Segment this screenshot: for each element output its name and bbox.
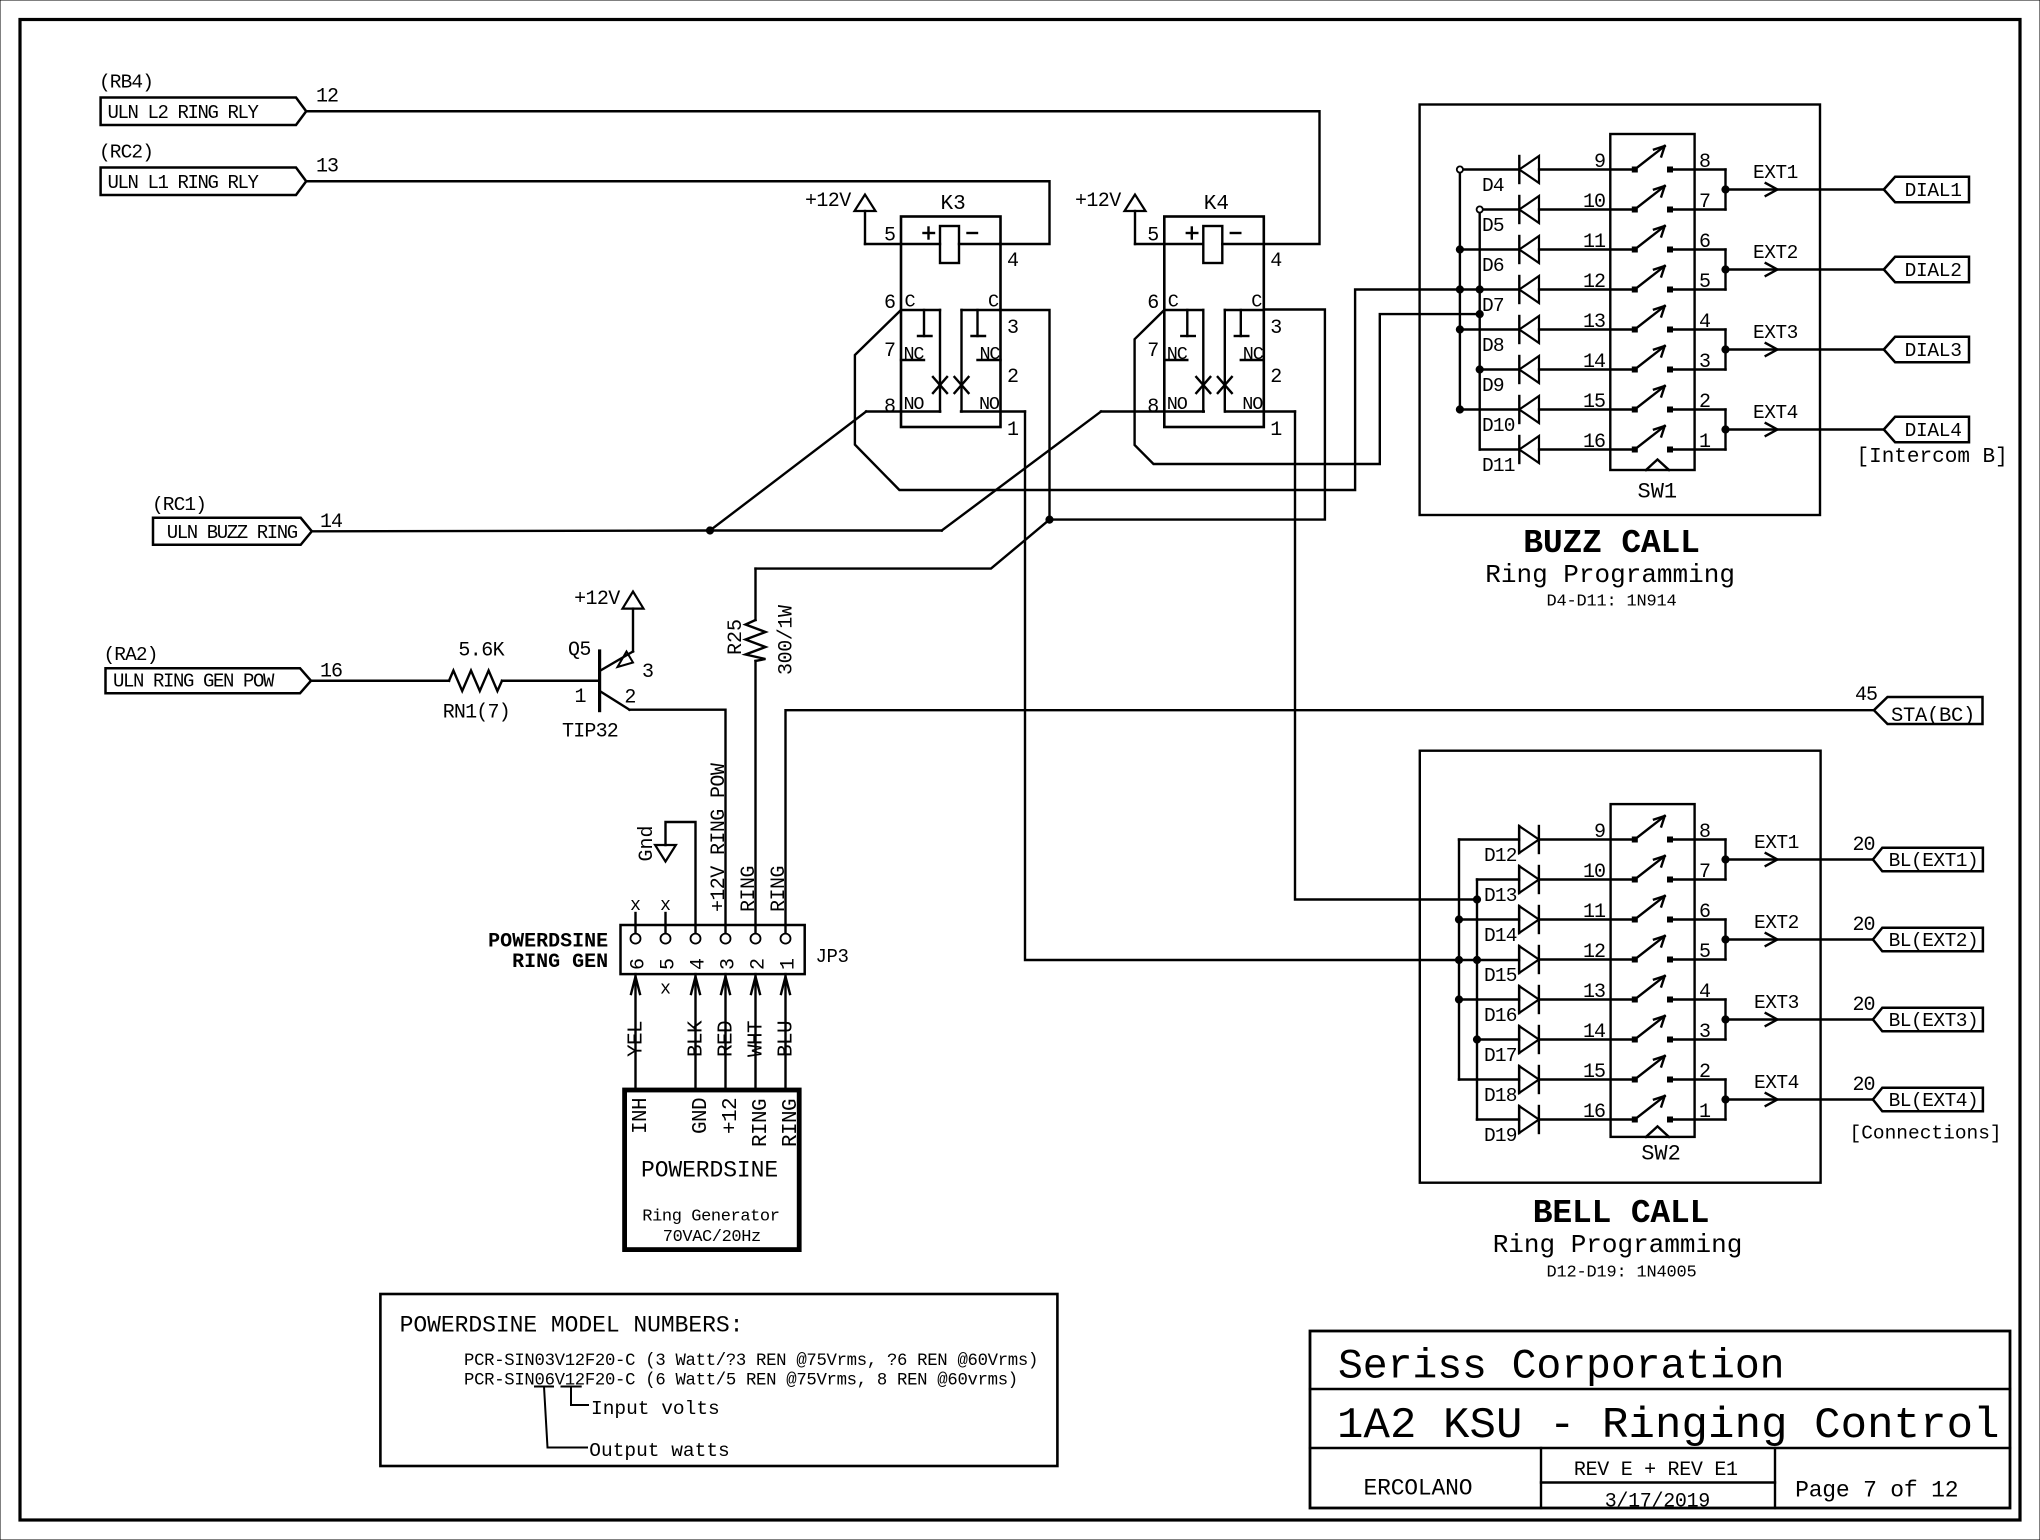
K4 coil - sign: [1231, 232, 1241, 234]
svg-text:12: 12: [316, 86, 338, 109]
diode D14: [1459, 918, 1519, 920]
svg-text:2: 2: [1007, 366, 1019, 389]
bus1 junction: [1455, 996, 1462, 1003]
connector BL(EXT4): [1873, 1088, 1983, 1112]
wire node to R25 top: [756, 520, 1050, 569]
svg-text:EXT3: EXT3: [1754, 992, 1799, 1014]
connector ULN BUZZ RING: [153, 518, 312, 545]
arrow: [1766, 183, 1778, 196]
BUZZ bus2: [1478, 210, 1480, 450]
arrow: [1766, 1013, 1778, 1026]
K4 pin5 wire: [1135, 243, 1203, 245]
svg-text:BL(EXT1): BL(EXT1): [1889, 850, 1979, 872]
title divider v1: [1540, 1448, 1542, 1508]
svg-text:ULN BUZZ RING: ULN BUZZ RING: [167, 522, 298, 544]
svg-text:4: 4: [688, 958, 711, 970]
svg-text:3/17/2019: 3/17/2019: [1605, 1491, 1710, 1514]
svg-text:C: C: [905, 292, 916, 313]
K3 left contact (C/NC/NO): [901, 309, 940, 311]
svg-text:7: 7: [1699, 861, 1711, 884]
svg-text:1: 1: [1699, 431, 1711, 454]
svg-text:EXT2: EXT2: [1753, 242, 1798, 264]
relay K4 body: [1164, 217, 1264, 428]
svg-text:D14: D14: [1484, 925, 1517, 947]
svg-text:9: 9: [1594, 151, 1605, 174]
wire EXT3 to BL(EXT3): [1726, 1018, 1873, 1020]
svg-text:8: 8: [1699, 151, 1711, 174]
connector ULN L1 RING RLY: [101, 168, 307, 196]
connector ULN RING GEN POW: [106, 668, 312, 693]
svg-text:6: 6: [1699, 901, 1711, 924]
switch pole row 7: [1632, 407, 1637, 412]
diode D6: [1460, 248, 1519, 250]
svg-text:NC: NC: [1243, 344, 1264, 365]
diode D19: [1477, 1118, 1519, 1120]
svg-text:x: x: [660, 896, 671, 916]
connector BL(EXT1): [1873, 848, 1983, 872]
switch pole row 1: [1632, 167, 1637, 172]
svg-text:POWERDSINE MODEL NUMBERS:: POWERDSINE MODEL NUMBERS:: [400, 1313, 744, 1339]
svg-text:Output watts: Output watts: [589, 1440, 729, 1462]
svg-text:Page 7 of 12: Page 7 of 12: [1795, 1478, 1958, 1504]
svg-text:EXT1: EXT1: [1754, 832, 1799, 854]
svg-text:2: 2: [1699, 1061, 1711, 1084]
svg-text:1A2 KSU - Ringing Control: 1A2 KSU - Ringing Control: [1337, 1401, 2000, 1451]
svg-text:7: 7: [1147, 340, 1159, 363]
wire K3 pin6 to BUZZ bus: [855, 290, 1519, 491]
svg-text:NC: NC: [1167, 344, 1188, 365]
bus1 open end: [1457, 166, 1463, 172]
svg-text:5: 5: [658, 958, 681, 970]
svg-text:RED: RED: [716, 1021, 739, 1057]
JP3 pin 4 circle: [691, 934, 701, 944]
svg-text:SW1: SW1: [1638, 480, 1678, 505]
svg-text:45: 45: [1855, 684, 1877, 707]
switch pole row 2: [1632, 207, 1637, 212]
switch pole row 8: [1632, 447, 1637, 452]
svg-text:RN1(7): RN1(7): [443, 702, 510, 725]
svg-text:13: 13: [316, 156, 338, 179]
arrowhead up: [691, 977, 700, 995]
svg-text:[Intercom B]: [Intercom B]: [1857, 446, 2008, 469]
bus2 junction: [1473, 1036, 1480, 1043]
svg-text:D16: D16: [1484, 1005, 1517, 1027]
title block: [1310, 1331, 2010, 1508]
svg-text:11: 11: [1583, 231, 1606, 254]
svg-text:1: 1: [1699, 1101, 1711, 1124]
wire 14 continues: [710, 529, 942, 531]
svg-text:R25: R25: [725, 619, 748, 655]
wire INH to JP3: [634, 974, 636, 1090]
K4 pin1 NO wire: [1225, 410, 1295, 412]
svg-text:BL(EXT3): BL(EXT3): [1889, 1010, 1979, 1032]
svg-text:RING: RING: [750, 1099, 773, 1147]
Q5 collector: [601, 692, 629, 710]
svg-text:Ring Programming: Ring Programming: [1493, 1230, 1743, 1260]
switch pole row 15: [1632, 1077, 1637, 1082]
wire EXT1 to BL(EXT1): [1726, 858, 1873, 860]
svg-text:10: 10: [1583, 861, 1605, 884]
arrow: [1766, 423, 1778, 436]
svg-text:BL(EXT4): BL(EXT4): [1889, 1090, 1979, 1112]
Q5 emitter arrow: [618, 652, 634, 668]
+12V supply for K4: [1134, 211, 1136, 244]
BUZZ bus1: [1459, 170, 1461, 410]
wire 12 to K4 pin4: [306, 111, 1319, 244]
bus1 junction: [1456, 286, 1463, 293]
diode D10: [1460, 408, 1519, 410]
output bracket EXT4 bell: [1724, 1080, 1726, 1120]
svg-text:12: 12: [1583, 941, 1605, 964]
svg-text:10: 10: [1583, 191, 1605, 214]
svg-text:12: 12: [1583, 271, 1605, 294]
Q5 emitter: [601, 652, 633, 671]
svg-text:C: C: [1168, 292, 1179, 313]
wire 13 to K3 pin4: [306, 181, 1049, 244]
connector DIAL2: [1884, 257, 1969, 282]
K3 right contact (C/NC/NO): [962, 309, 1001, 311]
svg-text:2: 2: [748, 958, 771, 970]
leader Output watts: [535, 1386, 553, 1388]
svg-text:D17: D17: [1484, 1045, 1517, 1067]
K3 pin1 NO wire: [961, 410, 1025, 412]
diode D9: [1480, 368, 1520, 370]
relay K3 body: [901, 217, 1001, 428]
svg-text:POWERDSINE: POWERDSINE: [641, 1158, 778, 1184]
svg-text:K3: K3: [941, 193, 966, 216]
arrow: [1766, 853, 1778, 866]
+12V supply for Q5: [623, 592, 644, 609]
svg-text:(RC1): (RC1): [152, 494, 206, 516]
wire K4 pin1 to BELL bus: [1295, 412, 1477, 900]
bus2 junction: [1476, 366, 1483, 373]
svg-text:3: 3: [1699, 1021, 1711, 1044]
svg-text:8: 8: [884, 396, 896, 419]
BELL bus2: [1476, 880, 1478, 1120]
svg-text:D9: D9: [1482, 375, 1504, 397]
svg-text:+12V: +12V: [574, 588, 620, 611]
svg-text:BUZZ CALL: BUZZ CALL: [1523, 525, 1699, 562]
svg-text:3: 3: [1007, 317, 1019, 340]
svg-text:x: x: [630, 896, 641, 916]
JP3 pin 1 circle: [781, 934, 791, 944]
svg-text:WHT: WHT: [746, 1021, 769, 1057]
JP3 pin 6 circle: [631, 934, 641, 944]
wire R25 to JP3 pin2: [754, 661, 756, 934]
svg-text:REV E + REV E1: REV E + REV E1: [1574, 1459, 1738, 1482]
arrowhead up: [781, 977, 790, 995]
K3 coil + sign: [924, 232, 935, 234]
svg-text:NC: NC: [904, 344, 925, 365]
svg-text:RING: RING: [768, 866, 791, 912]
K3 left X mark: [933, 377, 947, 393]
svg-text:1: 1: [1270, 419, 1282, 442]
wire RING to JP3: [784, 974, 786, 1090]
wire JP3 pin1 RING to STA(BC): [786, 710, 1874, 933]
svg-text:300/1W: 300/1W: [776, 605, 799, 675]
svg-text:D12: D12: [1484, 845, 1517, 867]
ground symbol at JP3 pin4: [666, 822, 696, 934]
output bracket EXT1: [1724, 170, 1726, 210]
diode D17: [1477, 1038, 1519, 1040]
wire Q5 emitter to +12V: [632, 609, 634, 652]
connector BL(EXT2): [1873, 928, 1983, 952]
svg-text:6: 6: [884, 292, 896, 315]
wire Q5 collector to JP3 pin3: [630, 710, 726, 934]
bus2 junction: [1476, 286, 1483, 293]
svg-text:3: 3: [1270, 317, 1282, 340]
svg-text:20: 20: [1852, 914, 1874, 937]
output bracket EXT1 bell: [1724, 840, 1726, 880]
svg-text:(RB4): (RB4): [99, 72, 153, 94]
arrowhead up: [751, 977, 760, 995]
svg-text:DIAL3: DIAL3: [1905, 340, 1962, 362]
svg-text:9: 9: [1594, 821, 1605, 844]
switch pole row 13: [1632, 997, 1637, 1002]
svg-text:NC: NC: [980, 344, 1001, 365]
svg-text:(RC2): (RC2): [99, 142, 153, 164]
JP3 pin 2 circle: [751, 934, 761, 944]
svg-text:13: 13: [1583, 981, 1605, 1004]
K4 right X mark: [1218, 377, 1232, 393]
svg-text:STA(BC): STA(BC): [1891, 705, 1975, 728]
svg-text:3: 3: [642, 661, 654, 684]
svg-text:DIAL4: DIAL4: [1905, 420, 1962, 442]
svg-text:5: 5: [1699, 941, 1711, 964]
svg-text:4: 4: [1007, 250, 1019, 273]
svg-text:16: 16: [1583, 431, 1605, 454]
K3 pin8 NO wire: [866, 410, 940, 412]
svg-text:(RA2): (RA2): [104, 644, 158, 666]
svg-text:Seriss Corporation: Seriss Corporation: [1338, 1344, 1784, 1391]
svg-text:15: 15: [1583, 1061, 1605, 1084]
svg-text:BLK: BLK: [686, 1020, 709, 1057]
svg-text:D12-D19: 1N4005: D12-D19: 1N4005: [1547, 1264, 1697, 1283]
connector DIAL4: [1884, 417, 1969, 442]
svg-text:K4: K4: [1204, 193, 1229, 216]
svg-text:D10: D10: [1482, 415, 1515, 437]
svg-text:Gnd: Gnd: [636, 825, 659, 861]
switch pole row 4: [1632, 287, 1637, 292]
svg-text:4: 4: [1699, 311, 1711, 334]
wire EXT1 to DIAL1: [1726, 188, 1884, 190]
arrowhead up: [631, 977, 640, 995]
svg-text:C: C: [988, 292, 999, 313]
svg-text:C: C: [1251, 292, 1262, 313]
svg-text:EXT3: EXT3: [1753, 322, 1798, 344]
svg-text:EXT2: EXT2: [1754, 912, 1799, 934]
svg-text:Q5: Q5: [568, 639, 591, 662]
junction on BELL bus2 row D15: [1473, 956, 1480, 963]
svg-text:15: 15: [1583, 391, 1605, 414]
svg-text:5.6K: 5.6K: [458, 640, 504, 663]
junction wire14/K3pin8: [706, 527, 713, 534]
bus1 junction: [1456, 246, 1463, 253]
SW2 notch: [1646, 1126, 1669, 1137]
svg-text:Ring Programming: Ring Programming: [1485, 560, 1735, 590]
svg-text:3: 3: [1699, 351, 1711, 374]
output bracket EXT3: [1724, 330, 1726, 370]
svg-text:Input volts: Input volts: [591, 1398, 720, 1420]
K4 left X mark: [1196, 377, 1210, 393]
K4 pin4 inner wire: [1222, 243, 1264, 245]
K3 coil - sign: [968, 232, 978, 234]
svg-text:ULN RING GEN POW: ULN RING GEN POW: [113, 670, 275, 692]
switch SW1 box: [1610, 134, 1694, 470]
svg-text:6: 6: [1699, 231, 1711, 254]
svg-text:EXT4: EXT4: [1754, 1072, 1799, 1094]
svg-text:6: 6: [1147, 292, 1159, 315]
arrow: [1766, 263, 1778, 276]
svg-text:RING GEN: RING GEN: [512, 951, 608, 974]
svg-text:D19: D19: [1484, 1125, 1517, 1147]
connector ULN L2 RING RLY: [101, 98, 307, 126]
svg-text:ERCOLANO: ERCOLANO: [1364, 1476, 1473, 1502]
connector JP3: [621, 925, 805, 974]
wire RING to JP3: [754, 974, 756, 1090]
title divider v2: [1774, 1448, 1776, 1508]
svg-text:6: 6: [628, 958, 651, 970]
output bracket EXT2: [1724, 250, 1726, 290]
connector STA(BC): [1874, 697, 1983, 724]
svg-text:8: 8: [1699, 821, 1711, 844]
junction on BUZZ bus2: [1476, 311, 1483, 318]
bus2 open end: [1477, 206, 1483, 212]
svg-text:D13: D13: [1484, 885, 1517, 907]
svg-text:ULN L2 RING RLY: ULN L2 RING RLY: [108, 102, 260, 124]
leader Input volts: [562, 1386, 581, 1388]
bus1 junction: [1456, 406, 1463, 413]
diode D5: [1480, 208, 1520, 210]
svg-text:BLU: BLU: [776, 1021, 799, 1057]
wire GND to JP3: [694, 974, 696, 1090]
diode D18: [1459, 1078, 1519, 1080]
diode D13: [1477, 878, 1519, 880]
arrow: [1766, 1093, 1778, 1106]
svg-text:EXT4: EXT4: [1753, 402, 1798, 424]
svg-text:13: 13: [1583, 311, 1605, 334]
svg-text:20: 20: [1852, 834, 1874, 857]
BUZZ CALL block box: [1420, 105, 1820, 516]
resistor R25 300/1W: [754, 569, 756, 620]
output bracket EXT2 bell: [1724, 920, 1726, 960]
wire +12 to JP3: [724, 974, 726, 1090]
svg-text:1: 1: [778, 958, 801, 970]
svg-text:D6: D6: [1482, 255, 1504, 277]
svg-text:5: 5: [1147, 225, 1159, 248]
SW1 notch: [1646, 460, 1669, 471]
junction node ring feed: [1046, 516, 1053, 523]
svg-text:16: 16: [1583, 1101, 1605, 1124]
svg-text:2: 2: [1270, 366, 1282, 389]
diode D12: [1459, 838, 1519, 840]
wire EXT2 to BL(EXT2): [1726, 938, 1873, 940]
svg-text:+12V: +12V: [805, 190, 851, 213]
svg-text:14: 14: [1583, 351, 1605, 374]
svg-text:3: 3: [718, 958, 741, 970]
svg-text:GND: GND: [690, 1098, 713, 1134]
no-connect stub: [634, 913, 636, 933]
svg-text:D4: D4: [1482, 175, 1504, 197]
switch pole row 10: [1632, 877, 1637, 882]
wire K3 pin1 to BELL D15 row: [1025, 412, 1519, 961]
svg-text:5: 5: [884, 225, 896, 248]
switch pole row 6: [1632, 367, 1637, 372]
junction on BELL bus1: [1455, 956, 1462, 963]
svg-text:JP3: JP3: [816, 946, 849, 968]
svg-text:TIP32: TIP32: [562, 721, 618, 744]
connector DIAL3: [1884, 337, 1969, 362]
arrow: [1766, 343, 1778, 356]
POWERDSINE MODEL NUMBERS box: [380, 1294, 1057, 1466]
JP3 pin 5 circle: [661, 934, 671, 944]
title divider 1: [1310, 1388, 2010, 1390]
+12V supply for K3: [864, 211, 866, 244]
svg-text:D4-D11: 1N914: D4-D11: 1N914: [1547, 593, 1677, 612]
svg-text:+12V: +12V: [1075, 190, 1121, 213]
svg-text:2: 2: [1699, 391, 1711, 414]
K4 pin8 NO wire: [1101, 410, 1204, 412]
svg-text:14: 14: [1583, 1021, 1605, 1044]
wire K3 pin3 down to node: [1000, 310, 1050, 520]
no-connect stub: [664, 913, 666, 933]
svg-text:RING: RING: [780, 1099, 803, 1147]
BELL bus1: [1458, 840, 1460, 1080]
diagonal wire to K4 pin8: [942, 412, 1101, 531]
svg-text:YEL: YEL: [626, 1021, 649, 1057]
switch pole row 14: [1632, 1037, 1637, 1042]
svg-text:5: 5: [1699, 271, 1711, 294]
svg-text:+12: +12: [720, 1098, 743, 1134]
bus1 junction: [1455, 916, 1462, 923]
switch pole row 11: [1632, 917, 1637, 922]
resistor RN1(7) 5.6K: [449, 671, 502, 692]
svg-text:D7: D7: [1482, 295, 1504, 317]
transistor Q5 TIP32: [598, 651, 601, 711]
svg-text:D5: D5: [1482, 215, 1504, 237]
switch pole row 16: [1632, 1117, 1637, 1122]
output bracket EXT3 bell: [1724, 1000, 1726, 1040]
K4 left contact (C/NC/NO): [1164, 309, 1203, 311]
connector DIAL1: [1884, 177, 1969, 202]
arrow: [1766, 933, 1778, 946]
switch SW2 box: [1611, 804, 1695, 1137]
diode D8: [1460, 328, 1519, 330]
wire EXT2 to DIAL2: [1726, 268, 1884, 270]
svg-text:7: 7: [884, 340, 896, 363]
svg-text:1: 1: [575, 686, 587, 709]
svg-text:8: 8: [1147, 396, 1159, 419]
switch pole row 3: [1632, 247, 1637, 252]
svg-text:ULN L1 RING RLY: ULN L1 RING RLY: [108, 172, 260, 194]
svg-text:70VAC/20Hz: 70VAC/20Hz: [663, 1228, 761, 1247]
svg-text:BL(EXT2): BL(EXT2): [1889, 930, 1979, 952]
wire EXT4 to BL(EXT4): [1726, 1098, 1873, 1100]
svg-text:1: 1: [1007, 419, 1019, 442]
K3 pin4 inner wire: [959, 243, 1001, 245]
title divider rev/date: [1541, 1481, 1775, 1483]
svg-text:RING: RING: [738, 866, 761, 912]
switch pole row 5: [1632, 327, 1637, 332]
svg-text:x: x: [660, 980, 671, 1000]
K4 right contact (C/NC/NO): [1225, 309, 1264, 311]
wire 16 to resistor: [311, 680, 449, 682]
svg-text:DIAL1: DIAL1: [1905, 180, 1962, 202]
svg-text:4: 4: [1270, 250, 1282, 273]
BELL CALL block box: [1420, 751, 1821, 1183]
wire EXT4 to DIAL4: [1726, 428, 1884, 430]
svg-text:11: 11: [1583, 901, 1606, 924]
